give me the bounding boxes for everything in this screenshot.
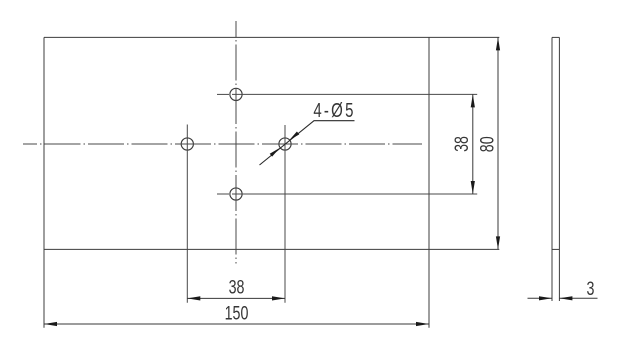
svg-text:4-Ø5: 4-Ø5 — [313, 99, 355, 122]
svg-text:150: 150 — [225, 302, 249, 323]
svg-text:80: 80 — [476, 136, 497, 152]
svg-text:38: 38 — [229, 277, 245, 298]
svg-text:3: 3 — [587, 278, 595, 299]
svg-text:38: 38 — [451, 136, 472, 152]
